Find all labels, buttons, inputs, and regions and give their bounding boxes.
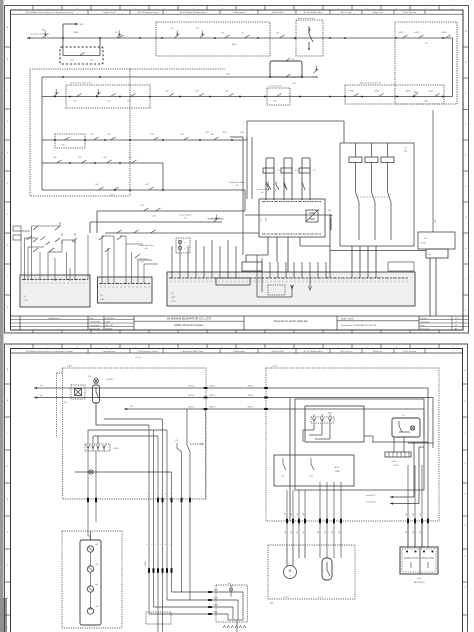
wire W3 left arrow (124, 408, 127, 410)
svg-text:-X1: -X1 (100, 295, 103, 297)
door interlock inner stroke (95, 387, 97, 392)
dashed vertical at 130 (129, 69, 131, 196)
dashed pointer into CAB (190, 443, 201, 445)
svg-text:-SX1: -SX1 (41, 30, 45, 32)
svg-text:-HL2: -HL2 (228, 583, 231, 585)
svg-text:-KL: -KL (292, 59, 295, 61)
svg-text:↑ Shaft Pit Box: ↑ Shaft Pit Box (270, 11, 283, 14)
small box under CCB (242, 262, 262, 271)
svg-text:+SW15: +SW15 (413, 92, 418, 94)
aseal feed wires (326, 557, 328, 559)
svg-text:Date: Date (90, 317, 94, 320)
U3 internal contacts (282, 458, 284, 464)
riser cluster vertical wires (148, 425, 150, 614)
svg-text:-X2: -X2 (171, 293, 174, 295)
plug circle 2 (178, 246, 182, 250)
arf terminal strip (385, 452, 411, 457)
svg-text:-KMB1: -KMB1 (73, 32, 79, 34)
mid ladder contacts column A (267, 182, 269, 186)
svg-text:+W9: +W9 (285, 513, 287, 516)
junction dots on L5 (69, 162, 71, 164)
jog wire y442 to riser (372, 441, 428, 443)
svg-text:-W10/12: -W10/12 (393, 465, 399, 467)
DW bottom drop (95, 403, 97, 425)
svg-text:J: J (465, 618, 466, 620)
fuse branch F3 (301, 158, 303, 200)
dashed inner edge T1-4 (56, 373, 58, 437)
svg-text:-RL3: -RL3 (309, 476, 313, 478)
connector blobs at COB boundary (264, 387, 268, 389)
COP ladder contacts (33, 226, 38, 230)
bottom fan wire 4 y614 (149, 613, 228, 615)
svg-text:-S22: -S22 (273, 101, 277, 103)
svg-text:-S37: -S37 (78, 157, 82, 159)
svg-text:+W16: +W16 (327, 210, 331, 212)
wire jog at 137 (230, 136, 243, 138)
contact S25 in D5 (413, 94, 418, 97)
svg-text:-s08: -s08 (235, 185, 238, 187)
svg-text:02: 02 (455, 325, 457, 327)
svg-text:KB: Car Top: KB: Car Top (341, 12, 353, 14)
contact S2 on L1 (119, 35, 124, 38)
svg-text:+W07/1.6: +W07/1.6 (247, 407, 254, 409)
svg-text:Rail/Loading: Rail/Loading (233, 12, 244, 14)
push button internal links (90, 552, 92, 566)
svg-text:Landing door Status: Landing door Status (138, 244, 153, 247)
amu internal stubs (410, 562, 412, 568)
svg-text:-CAB: -CAB (67, 365, 72, 368)
wire from arf right (408, 442, 433, 444)
U2 to jog wire (364, 435, 373, 437)
svg-text:-ab4: -ab4 (95, 606, 98, 608)
U3 drops to bars mid group (319, 482, 321, 558)
svg-text:+W9: +W9 (297, 513, 299, 516)
BAT_UP signal wire (390, 496, 414, 498)
contact S38 on L5 (107, 160, 112, 163)
KF bottom stub wires (429, 258, 431, 316)
contact S24 in D5 (379, 94, 384, 97)
svg-text:+SW24: +SW24 (428, 91, 433, 93)
dashed top extension of D6 (130, 68, 225, 70)
svg-text:+W9: +W9 (291, 531, 293, 534)
svg-text:a02: a02 (40, 395, 43, 397)
riser x330 mid (329, 215, 331, 251)
connector blobs at CAB boundary (204, 387, 208, 389)
transformer drop wires to terminals (351, 246, 353, 272)
svg-text:+W9: +W9 (297, 531, 299, 534)
riser from KF to title area (435, 258, 437, 316)
svg-text:-DW: -DW (88, 376, 92, 378)
contact S47 on L9 (134, 230, 139, 233)
amu feed stubs (407, 521, 409, 548)
sheet 2 right margin zone ticks (463, 383, 468, 385)
bottom fan wire 1 y592 (172, 591, 244, 593)
svg-text:+W8/16: +W8/16 (213, 590, 218, 592)
svg-text:-aseal: -aseal (318, 597, 323, 599)
transformer feed stubs (355, 143, 357, 157)
power supply unit KF box (418, 232, 455, 249)
svg-text:-S30: -S30 (61, 145, 65, 147)
push button column body (80, 540, 101, 625)
V-arrow terminal 1 (309, 278, 311, 286)
wire riser x433 W30 (432, 110, 434, 232)
svg-text:+W07/1.6: +W07/1.6 (247, 395, 254, 397)
DW wires to feeders (95, 385, 97, 389)
dashed box D2 pit inspection group (156, 22, 270, 56)
svg-text:+W9: +W9 (339, 531, 341, 534)
svg-text:-S39: -S39 (128, 157, 132, 159)
dashed service box below X2 row (268, 285, 285, 295)
svg-text:Total pages: Total pages (421, 320, 430, 323)
dashed box D4 top right group (395, 22, 457, 104)
svg-text:-S2: -S2 (115, 32, 118, 34)
ladder verticals between L3 and CCB (246, 137, 248, 199)
transformer winding rect W1 (349, 157, 362, 163)
svg-text:-s09: -s09 (260, 192, 263, 194)
wire from transformer to KF (414, 219, 433, 221)
wire stub up to MCT (62, 24, 64, 38)
svg-text:(2A): (2A) (404, 150, 408, 153)
door interlock DW circle (94, 379, 99, 384)
svg-text:HUINHAN ELEVATOR CO.,LTD: HUINHAN ELEVATOR CO.,LTD (167, 317, 212, 321)
CCB drop wires (267, 237, 269, 255)
wire L9 extension (240, 232, 259, 234)
sheet 2 outer border frame (5, 344, 468, 632)
svg-text:-RL2: -RL2 (281, 476, 285, 478)
svg-text:-S7: -S7 (241, 33, 244, 35)
X1-COP lead-in wires (24, 238, 26, 280)
svg-text:b: b (184, 248, 185, 250)
wire L7 extension to x330 (245, 214, 330, 216)
COP ladder frame wires (25, 237, 37, 239)
second feed riser x96 (95, 451, 97, 522)
sheet 1 right margin zone ticks (463, 46, 469, 48)
contact S43 on L7 (144, 208, 149, 211)
svg-text:Version: Version (421, 318, 427, 320)
sheet 2 left margin zone ticks (5, 383, 11, 385)
right risers from feeder steps (186, 409, 188, 445)
bus L1 left arrow terminal (27, 37, 30, 39)
dashed box D3 anti-overdrive switch (296, 20, 323, 56)
contact S6 in D2 (225, 35, 230, 38)
svg-text:+W8/16: +W8/16 (145, 561, 147, 566)
contact S44 on L7 (156, 208, 161, 211)
KF drop to terminal strip (329, 251, 331, 273)
push button B2 (87, 566, 93, 572)
bus L2 mid safety line (42, 76, 318, 78)
svg-text:-K09: -K09 (90, 60, 94, 62)
transformer winding rect W2 (365, 157, 378, 163)
svg-text:A3: A3 (455, 327, 457, 330)
svg-text:← Rock Shadow Shadow Horse: ← Rock Shadow Shadow Horse (177, 12, 206, 14)
terminal strip X2-MCT box (167, 272, 415, 306)
contact S32 on L4 (111, 137, 116, 140)
contact S33 on L4 (154, 137, 159, 140)
spare terminal rect lower (13, 235, 21, 240)
svg-text:Locking door Status: Locking door Status (208, 218, 224, 221)
dashed enclosure CAB car top box (63, 368, 207, 499)
X2 lead-in wires mid group (256, 262, 258, 278)
svg-text:+W05: +W05 (205, 132, 209, 134)
feed riser bars at CAB bottom (87, 498, 89, 503)
fan merge exit (228, 619, 243, 621)
title block page info cell (419, 319, 469, 321)
svg-text:a03: a03 (130, 406, 133, 408)
amu terminal dots (406, 551, 408, 553)
switch S3 pit stop (117, 34, 122, 38)
left rail R1 (41, 77, 43, 190)
COB bottom crossing bars left group (286, 490, 288, 545)
svg-text:-S5: -S5 (196, 28, 199, 30)
dashed box D7 anti-over power switch (66, 85, 150, 108)
sheet 2 top margin zone ticks (32, 344, 34, 349)
BAT_DN signal wire (390, 503, 419, 505)
svg-text:Page: Page (421, 325, 425, 327)
svg-text:-ab2: -ab2 (95, 564, 98, 566)
bus L1 top safety line (27, 37, 453, 39)
svg-text:-S36: -S36 (53, 157, 57, 159)
X2-MCT terminal dashed row (169, 277, 408, 279)
connector bars at CAB bottom y500 (157, 498, 159, 503)
wire W3 feeder (124, 408, 424, 410)
jog wire from CCB (246, 254, 268, 256)
breaker pole 3 (387, 163, 389, 193)
svg-text:Print count: Print count (421, 327, 430, 330)
terminal strip X1-CAR box (98, 277, 153, 303)
svg-text:(PSU): (PSU) (421, 243, 426, 245)
wire W2 left arrow (34, 396, 37, 398)
contact S18 in D7 (131, 94, 136, 97)
ladder verticals right of CCB (301, 180, 303, 199)
ground symbol in HL2 box (242, 600, 244, 605)
svg-text:+W12: +W12 (240, 132, 244, 134)
U1 internal wires (302, 442, 304, 454)
sheet 1 bottom margin zone ticks (32, 330, 34, 333)
sheet 2 inner border frame (11, 349, 463, 632)
contact S21 (229, 94, 234, 97)
svg-text:V1.0: V1.0 (455, 318, 459, 320)
arf wires down to strip (393, 437, 395, 452)
svg-text:a01: a01 (40, 385, 43, 387)
svg-text:-S34: -S34 (180, 134, 184, 136)
U3 relay output box (274, 455, 354, 486)
KF feed wire (330, 249, 418, 251)
X1-CAR terminal dashed row (100, 283, 151, 285)
svg-text:Trap / Observe: Trap / Observe (403, 12, 417, 14)
svg-text:The Stability of Error Switch: The Stability of Error Switch & Componen… (26, 350, 73, 353)
svg-text:-W30: -W30 (434, 219, 436, 223)
svg-text:-K08: -K08 (70, 60, 74, 62)
junction dots on L3 (54, 96, 56, 98)
svg-text:-(T1.4): -(T1.4) (135, 357, 141, 359)
U1 drops left group sources (286, 482, 288, 490)
X2 below-loop wires (256, 278, 258, 297)
bus L1 right drop to bus L3 (452, 38, 454, 97)
wire W2 drop at right (432, 398, 434, 449)
svg-text:+SW21: +SW21 (349, 91, 354, 93)
svg-text:2023-05-17: 2023-05-17 (106, 318, 116, 320)
CAR ladder contacts (99, 236, 104, 240)
wire drop L6 to L7 (244, 190, 246, 211)
svg-text:↑ Shaft Pit Box: ↑ Shaft Pit Box (270, 350, 283, 353)
svg-text:-CPMB: -CPMB (334, 471, 339, 473)
vertical ladder V-left group above terminal C (267, 180, 269, 199)
svg-text:Componention: Componention (102, 350, 115, 353)
wire drop from L5 (162, 163, 164, 190)
push button feed wire (90, 531, 92, 540)
svg-text:-S44: -S44 (152, 216, 156, 218)
wire from KF left (330, 250, 426, 252)
relay arf box (392, 418, 420, 437)
connector bars row y570 (148, 568, 150, 573)
svg-text:-F2: -F2 (295, 170, 298, 172)
contact S17 in D7 (111, 94, 116, 97)
sheet 1 inner border frame (11, 10, 464, 330)
push button B1 (87, 546, 93, 552)
svg-text:-S38: -S38 (103, 157, 107, 159)
amu inner dashed border (402, 549, 436, 572)
test point arrow TP1 (330, 217, 332, 230)
svg-text:-W06: -W06 (226, 74, 230, 76)
plug circle 1 (178, 240, 182, 244)
CCB terminal row bottom (262, 233, 322, 235)
title block column lines (19, 316, 21, 330)
svg-text:+W07/1.6: +W07/1.6 (188, 395, 195, 397)
svg-text:-S33: -S33 (150, 134, 154, 136)
bottom fan wire 3 y607 (154, 606, 234, 608)
svg-text:-K19: -K19 (165, 91, 169, 93)
wire riser from L4 to feeder (246, 121, 248, 140)
feeder drop into transformer box (343, 121, 345, 143)
relay loop KL rounded (270, 61, 302, 77)
motor M circle (284, 566, 297, 579)
amu divider (419, 547, 421, 574)
svg-text:+W9: +W9 (325, 531, 327, 534)
bus L9 (105, 232, 240, 234)
svg-text:Anti-Over Power Switch Limit: Anti-Over Power Switch Limit (70, 82, 92, 85)
sheet 1 left margin zone ticks (5, 46, 11, 48)
svg-text:-S35: -S35 (210, 134, 214, 136)
switch S1 governor (43, 34, 48, 38)
svg-text:-F1: -F1 (277, 170, 280, 172)
contact in D8 (65, 137, 70, 140)
svg-text:← PD Emergency Power: ← PD Emergency Power (135, 351, 158, 353)
wire W3 drop at right (423, 410, 425, 438)
contact S10 in D4 (403, 35, 408, 38)
svg-text:-COB: -COB (272, 366, 277, 368)
brake coil aseal (322, 558, 332, 580)
mid ladder verticals down from L3 right cluster (301, 96, 303, 99)
contact S41 on L6 (114, 187, 119, 190)
svg-text:+W9: +W9 (420, 513, 422, 516)
sheet 1 top margin zone ticks (32, 6, 34, 11)
contact S35 on L4 (214, 137, 219, 140)
KF sub box (426, 249, 448, 258)
U2 plug strip dashed (311, 417, 334, 423)
switch S5 in D2 (200, 34, 205, 38)
svg-text:Car door Status: Car door Status (256, 188, 269, 191)
switch S15 in D7 (96, 92, 101, 96)
Y plug strip CAB bottom (85, 444, 110, 451)
svg-text:+W8/16: +W8/16 (213, 605, 218, 607)
svg-text:Roll/Landing: Roll/Landing (233, 351, 244, 353)
svg-text:24xxDW: 24xxDW (106, 379, 113, 381)
svg-text:+W8/16: +W8/16 (213, 598, 218, 600)
COB right inner riser (432, 448, 434, 465)
alarm bell symbol (89, 470, 93, 474)
title block outline (11, 315, 469, 317)
contact S19 (169, 94, 174, 97)
svg-text:-s06: -s06 (144, 248, 147, 250)
svg-text:a: a (184, 242, 185, 244)
svg-text:-S32: -S32 (107, 134, 111, 136)
svg-text:-S40: -S40 (95, 184, 99, 186)
fuse branch F1 (265, 158, 267, 200)
bus L4 inspection line (42, 139, 247, 141)
X2 lead-in wires left group (171, 252, 173, 278)
dashed CAB right edge lower (205, 410, 207, 499)
svg-text:+SW12: +SW12 (414, 32, 420, 34)
X1-COP terminal dashed row (22, 279, 88, 281)
contact KMB loop (80, 53, 85, 56)
svg-text:+W9: +W9 (285, 531, 287, 534)
wire W1 top feeder (34, 387, 428, 389)
svg-text:Safety Circ.: Safety Circ. (373, 11, 384, 14)
svg-text:+W9: +W9 (291, 513, 293, 516)
svg-text:-COP: -COP (23, 300, 28, 302)
V-arrow terminal 2 (291, 284, 293, 287)
svg-text:Anti-Over-Drive Switch Limit: Anti-Over-Drive Switch Limit (360, 82, 382, 85)
svg-text:-K14: -K14 (292, 83, 296, 85)
svg-text:Car door Status: Car door Status (179, 214, 192, 217)
svg-text:Control Circuit: Control Circuit (103, 11, 116, 14)
wire W1 left arrow (34, 387, 37, 389)
breaker stroke on F3 (302, 182, 305, 190)
contact S8 (280, 35, 285, 38)
svg-text:+SW11: +SW11 (398, 32, 404, 34)
amu internal dashed row (404, 557, 434, 559)
junction dots on L6 (114, 189, 116, 191)
COP arrows (61, 242, 63, 244)
svg-text:Model: 3D3W: Model: 3D3W (341, 318, 354, 320)
machine dashed box AM (268, 545, 355, 599)
plug strip bottom left (146, 612, 171, 624)
svg-text:+SW23: +SW23 (405, 91, 410, 93)
svg-text:-K21: -K21 (225, 91, 229, 93)
svg-text:J: J (7, 276, 8, 278)
control unit CCB box (259, 199, 325, 237)
svg-text:Landing door Status: Landing door Status (229, 181, 245, 184)
contact S26 in D5 (435, 94, 440, 97)
svg-text:-amotor: -amotor (283, 596, 289, 599)
arf indicator circle (410, 426, 414, 430)
contact S7 in D2 (245, 35, 250, 38)
switch S13 on L2 right end (314, 69, 319, 73)
svg-text:+SW13: +SW13 (441, 32, 447, 34)
switch S45 on L8 (214, 218, 219, 222)
scan edge shadow left (0, 0, 4, 632)
contact S20 (199, 94, 204, 97)
breaker pole 1 (355, 163, 357, 193)
spare terminal rect upper (13, 226, 21, 231)
svg-text:+W9: +W9 (406, 513, 408, 516)
bus L3 safety return line (42, 96, 453, 98)
main control unit box U1 (295, 399, 424, 490)
svg-text:+W07/1.6: +W07/1.6 (209, 386, 216, 388)
push button unit dashed box (62, 531, 122, 628)
switch S9 vertical in D3 (308, 26, 310, 34)
svg-text:-CAR: -CAR (100, 298, 105, 301)
